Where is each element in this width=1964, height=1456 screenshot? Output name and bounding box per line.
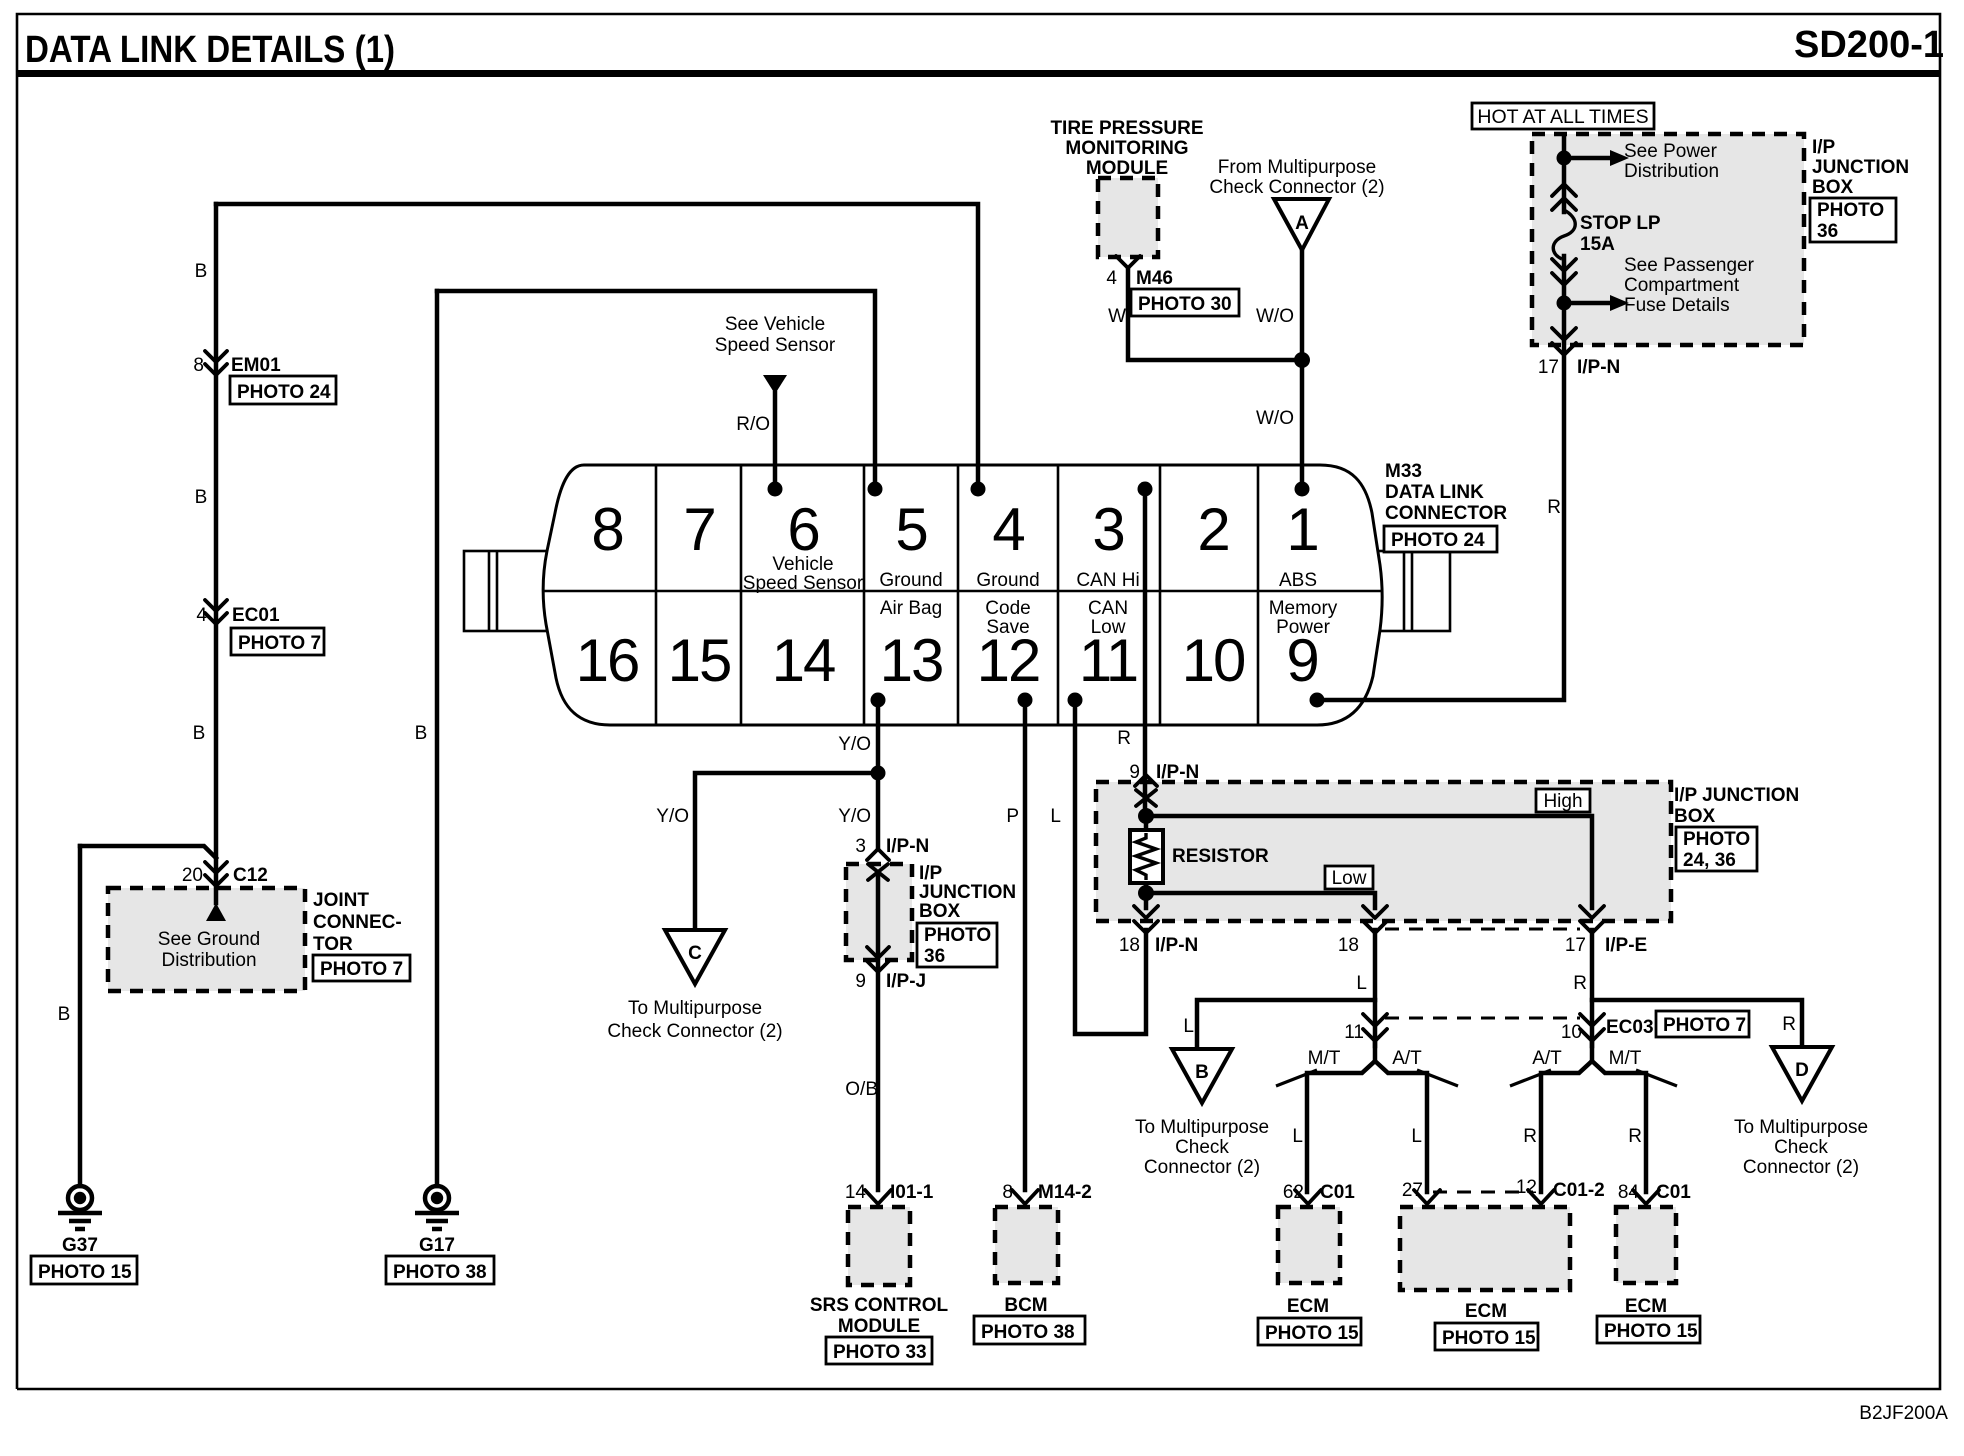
- svg-text:L: L: [1356, 973, 1367, 994]
- svg-text:To Multipurpose: To Multipurpose: [1734, 1117, 1868, 1138]
- svg-text:SD200-1: SD200-1: [1794, 24, 1944, 66]
- svg-text:Connector (2): Connector (2): [1743, 1157, 1859, 1178]
- svg-text:BOX: BOX: [1812, 177, 1854, 198]
- svg-text:36: 36: [1817, 221, 1838, 242]
- svg-text:Y/O: Y/O: [838, 806, 871, 827]
- svg-text:I/P JUNCTION: I/P JUNCTION: [1674, 785, 1799, 806]
- svg-text:36: 36: [924, 946, 945, 967]
- svg-text:16: 16: [576, 627, 639, 694]
- svg-text:RESISTOR: RESISTOR: [1172, 846, 1269, 867]
- svg-text:SRS CONTROL: SRS CONTROL: [810, 1295, 949, 1316]
- svg-text:B: B: [1195, 1062, 1209, 1083]
- svg-text:Ground: Ground: [879, 570, 942, 591]
- svg-text:A/T: A/T: [1532, 1048, 1562, 1069]
- svg-text:See Power: See Power: [1624, 141, 1718, 162]
- svg-text:15: 15: [668, 627, 731, 694]
- svg-text:2: 2: [1197, 496, 1228, 563]
- svg-text:PHOTO 15: PHOTO 15: [1265, 1323, 1359, 1344]
- svg-text:Memory: Memory: [1269, 598, 1338, 619]
- svg-text:HOT AT ALL TIMES: HOT AT ALL TIMES: [1477, 106, 1648, 128]
- svg-text:Vehicle: Vehicle: [772, 554, 833, 575]
- svg-text:Power: Power: [1276, 617, 1331, 638]
- svg-text:L: L: [1292, 1126, 1303, 1147]
- svg-text:15A: 15A: [1580, 234, 1615, 255]
- svg-text:Air Bag: Air Bag: [880, 598, 942, 619]
- svg-text:C01: C01: [1320, 1182, 1355, 1203]
- svg-text:W: W: [1108, 306, 1126, 327]
- svg-text:Distribution: Distribution: [1624, 161, 1719, 182]
- svg-text:L: L: [1050, 806, 1061, 827]
- svg-text:EC03: EC03: [1606, 1017, 1654, 1038]
- svg-text:PHOTO 30: PHOTO 30: [1138, 294, 1232, 315]
- svg-text:9: 9: [1129, 762, 1140, 783]
- svg-text:Ground: Ground: [976, 570, 1039, 591]
- svg-text:PHOTO 7: PHOTO 7: [238, 633, 321, 654]
- svg-text:M33: M33: [1385, 461, 1422, 482]
- svg-text:18: 18: [1338, 935, 1359, 956]
- svg-text:ECM: ECM: [1287, 1296, 1329, 1317]
- svg-text:I/P-N: I/P-N: [886, 836, 929, 857]
- svg-text:G37: G37: [62, 1235, 98, 1256]
- svg-text:Low: Low: [1332, 868, 1367, 889]
- svg-text:M14-2: M14-2: [1038, 1182, 1092, 1203]
- svg-text:PHOTO 38: PHOTO 38: [393, 1262, 487, 1283]
- svg-text:JOINT: JOINT: [313, 890, 369, 911]
- svg-text:Compartment: Compartment: [1624, 275, 1740, 296]
- svg-text:84: 84: [1618, 1182, 1640, 1203]
- svg-text:I/P-N: I/P-N: [1155, 935, 1198, 956]
- svg-text:High: High: [1543, 791, 1582, 812]
- svg-text:8: 8: [591, 496, 622, 563]
- svg-text:18: 18: [1119, 935, 1140, 956]
- svg-text:Check Connector (2): Check Connector (2): [1209, 177, 1384, 198]
- svg-text:See Passenger: See Passenger: [1624, 255, 1755, 276]
- svg-text:Y/O: Y/O: [838, 734, 871, 755]
- svg-text:W/O: W/O: [1256, 408, 1294, 429]
- svg-text:PHOTO 15: PHOTO 15: [38, 1262, 132, 1283]
- svg-text:PHOTO 24: PHOTO 24: [1391, 530, 1485, 551]
- svg-text:Check: Check: [1175, 1137, 1229, 1158]
- svg-text:8: 8: [193, 355, 204, 376]
- svg-text:A/T: A/T: [1392, 1048, 1422, 1069]
- svg-text:12: 12: [1516, 1177, 1537, 1198]
- svg-text:B: B: [195, 261, 208, 282]
- svg-text:PHOTO 15: PHOTO 15: [1604, 1321, 1698, 1342]
- svg-text:Speed Sensor: Speed Sensor: [743, 573, 864, 594]
- svg-text:PHOTO: PHOTO: [1683, 829, 1750, 850]
- svg-text:PHOTO 33: PHOTO 33: [833, 1342, 927, 1363]
- svg-text:I/P: I/P: [1812, 137, 1836, 158]
- svg-text:I/P-J: I/P-J: [886, 971, 926, 992]
- svg-text:7: 7: [683, 496, 714, 563]
- svg-text:CONNECTOR: CONNECTOR: [1385, 503, 1507, 524]
- svg-text:CONNEC-: CONNEC-: [313, 912, 402, 933]
- svg-text:ABS: ABS: [1279, 570, 1317, 591]
- svg-text:Code: Code: [985, 598, 1030, 619]
- svg-text:14: 14: [845, 1182, 867, 1203]
- svg-text:DATA LINK DETAILS (1): DATA LINK DETAILS (1): [25, 29, 395, 71]
- svg-text:R: R: [1523, 1126, 1537, 1147]
- svg-text:BCM: BCM: [1004, 1295, 1047, 1316]
- svg-text:Check: Check: [1774, 1137, 1828, 1158]
- svg-text:BOX: BOX: [1674, 806, 1716, 827]
- svg-text:3: 3: [855, 836, 866, 857]
- svg-text:11: 11: [1344, 1022, 1364, 1043]
- svg-text:JUNCTION: JUNCTION: [1812, 157, 1909, 178]
- svg-text:A: A: [1295, 213, 1309, 234]
- svg-text:See Vehicle: See Vehicle: [725, 314, 825, 335]
- svg-text:C01: C01: [1656, 1182, 1691, 1203]
- svg-text:R: R: [1117, 728, 1131, 749]
- svg-text:R: R: [1547, 497, 1561, 518]
- svg-text:CAN Hi: CAN Hi: [1076, 570, 1139, 591]
- svg-text:C: C: [688, 943, 702, 964]
- svg-text:I/P-N: I/P-N: [1577, 357, 1620, 378]
- svg-text:Check Connector (2): Check Connector (2): [607, 1021, 782, 1042]
- svg-text:PHOTO 15: PHOTO 15: [1442, 1328, 1536, 1349]
- svg-text:B2JF200A: B2JF200A: [1859, 1403, 1948, 1424]
- svg-text:8: 8: [1002, 1182, 1013, 1203]
- svg-text:PHOTO 38: PHOTO 38: [981, 1322, 1075, 1343]
- svg-text:B: B: [193, 723, 206, 744]
- svg-text:O/B: O/B: [845, 1079, 878, 1100]
- svg-text:M/T: M/T: [1308, 1048, 1341, 1069]
- svg-text:3: 3: [1092, 496, 1123, 563]
- svg-text:MONITORING: MONITORING: [1065, 138, 1188, 159]
- svg-text:4: 4: [1106, 268, 1117, 289]
- svg-text:10: 10: [1561, 1022, 1582, 1043]
- svg-text:R: R: [1782, 1014, 1796, 1035]
- svg-text:L: L: [1411, 1126, 1422, 1147]
- svg-text:M/T: M/T: [1609, 1048, 1642, 1069]
- svg-text:ECM: ECM: [1465, 1301, 1507, 1322]
- svg-text:4: 4: [196, 605, 207, 626]
- svg-text:MODULE: MODULE: [838, 1316, 920, 1337]
- svg-text:EM01: EM01: [231, 355, 281, 376]
- svg-text:R/O: R/O: [736, 414, 770, 435]
- svg-text:17: 17: [1565, 935, 1586, 956]
- svg-text:17: 17: [1538, 357, 1559, 378]
- svg-text:To Multipurpose: To Multipurpose: [1135, 1117, 1269, 1138]
- svg-text:1: 1: [1286, 496, 1317, 563]
- svg-text:Y/O: Y/O: [656, 806, 689, 827]
- svg-text:JUNCTION: JUNCTION: [919, 882, 1016, 903]
- svg-text:Speed Sensor: Speed Sensor: [715, 335, 836, 356]
- svg-text:To Multipurpose: To Multipurpose: [628, 998, 762, 1019]
- svg-text:TIRE PRESSURE: TIRE PRESSURE: [1050, 118, 1203, 139]
- svg-text:L: L: [1183, 1016, 1194, 1037]
- svg-text:10: 10: [1182, 627, 1245, 694]
- svg-text:R: R: [1628, 1126, 1642, 1147]
- svg-text:EC01: EC01: [232, 605, 280, 626]
- svg-text:PHOTO: PHOTO: [1817, 200, 1884, 221]
- svg-text:B: B: [415, 723, 428, 744]
- svg-text:62: 62: [1283, 1182, 1304, 1203]
- svg-text:20: 20: [182, 865, 203, 886]
- svg-text:Low: Low: [1091, 617, 1126, 638]
- svg-text:14: 14: [772, 627, 835, 694]
- svg-text:TOR: TOR: [313, 934, 353, 955]
- svg-text:See Ground: See Ground: [158, 929, 260, 950]
- svg-text:Save: Save: [986, 617, 1029, 638]
- svg-text:I01-1: I01-1: [890, 1182, 934, 1203]
- svg-text:MODULE: MODULE: [1086, 158, 1168, 179]
- svg-text:M46: M46: [1136, 268, 1173, 289]
- svg-text:PHOTO 24: PHOTO 24: [237, 382, 331, 403]
- svg-text:STOP LP: STOP LP: [1580, 213, 1661, 234]
- svg-text:B: B: [58, 1004, 71, 1025]
- svg-text:24, 36: 24, 36: [1683, 850, 1736, 871]
- svg-text:I/P: I/P: [919, 863, 943, 884]
- svg-text:PHOTO: PHOTO: [924, 925, 991, 946]
- svg-text:P: P: [1006, 806, 1019, 827]
- svg-text:13: 13: [880, 627, 943, 694]
- svg-text:R: R: [1573, 973, 1587, 994]
- svg-text:9: 9: [855, 971, 866, 992]
- svg-text:Connector (2): Connector (2): [1144, 1157, 1260, 1178]
- svg-text:DATA LINK: DATA LINK: [1385, 482, 1484, 503]
- svg-text:5: 5: [895, 496, 926, 563]
- svg-text:From Multipurpose: From Multipurpose: [1218, 157, 1376, 178]
- svg-text:C12: C12: [233, 865, 268, 886]
- svg-text:D: D: [1795, 1060, 1809, 1081]
- svg-text:4: 4: [992, 496, 1024, 563]
- svg-text:I/P-E: I/P-E: [1605, 935, 1647, 956]
- svg-text:C01-2: C01-2: [1553, 1180, 1605, 1201]
- svg-text:CAN: CAN: [1088, 598, 1128, 619]
- svg-text:B: B: [195, 487, 208, 508]
- svg-text:G17: G17: [419, 1235, 455, 1256]
- svg-text:PHOTO 7: PHOTO 7: [1663, 1015, 1746, 1036]
- svg-text:27: 27: [1402, 1180, 1423, 1201]
- svg-text:6: 6: [787, 496, 818, 563]
- svg-text:ECM: ECM: [1625, 1296, 1667, 1317]
- svg-text:PHOTO 7: PHOTO 7: [320, 959, 403, 980]
- svg-text:W/O: W/O: [1256, 306, 1294, 327]
- svg-text:Distribution: Distribution: [161, 950, 256, 971]
- svg-text:Fuse Details: Fuse Details: [1624, 295, 1730, 316]
- svg-text:I/P-N: I/P-N: [1156, 762, 1199, 783]
- svg-text:BOX: BOX: [919, 901, 961, 922]
